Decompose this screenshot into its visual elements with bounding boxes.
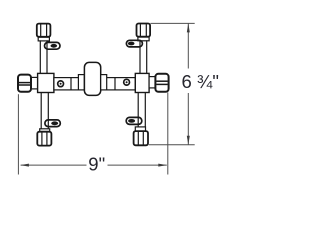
bottom extension line [149, 144, 195, 146]
arrow left [20, 164, 29, 167]
arrow up [187, 23, 190, 32]
dimension line left segment [21, 164, 87, 166]
left screw [58, 81, 64, 87]
right end hex nut [155, 74, 168, 92]
dimension: horizontal 9 inch [18, 93, 167, 175]
arrow right [158, 164, 167, 167]
top extension line [151, 22, 195, 24]
bottom-right drop pipe [138, 92, 145, 127]
center valve block [84, 62, 100, 95]
left end hex nut [18, 75, 31, 92]
left block collar [78, 75, 84, 90]
right block collar [101, 75, 107, 90]
right screw [124, 79, 130, 85]
top-left riser pipe [40, 40, 47, 73]
right collar segment [149, 77, 155, 88]
left pipe segment to block [71, 78, 78, 90]
top-right supply fitting (hex cap) [137, 24, 151, 37]
svg-text:6 ¾": 6 ¾" [182, 71, 219, 92]
top-right collar [138, 37, 149, 41]
right screw plate [115, 78, 135, 90]
svg-text:9": 9" [88, 154, 105, 175]
dimension: vertical 6 3/4 inch [149, 23, 195, 144]
bottom-right collar [135, 127, 145, 131]
bottom-left petcock valve [45, 120, 60, 127]
dimension line upper segment [187, 23, 189, 68]
top-left petcock valve [45, 42, 61, 49]
left extension line [17, 94, 19, 174]
right pipe segment to block [107, 78, 115, 90]
bottom-right petcock valve [126, 117, 142, 124]
right tee body [135, 73, 149, 92]
top-left supply fitting (hex cap) [37, 24, 51, 37]
left tee body [38, 73, 54, 92]
top-left collar [38, 37, 49, 41]
bottom-left drop pipe [41, 92, 48, 129]
left screw plate [54, 78, 71, 90]
dimension line lower segment [187, 93, 189, 145]
bottom-left hex cap [37, 132, 51, 146]
bottom-right hex cap [134, 131, 148, 145]
top-right petcock valve [126, 40, 142, 47]
left pipe segment [31, 77, 38, 89]
top-right riser pipe [140, 40, 147, 73]
bottom-left collar [40, 129, 50, 132]
dimension line right segment [108, 164, 167, 166]
right extension line [167, 93, 169, 175]
arrow down [187, 136, 190, 145]
